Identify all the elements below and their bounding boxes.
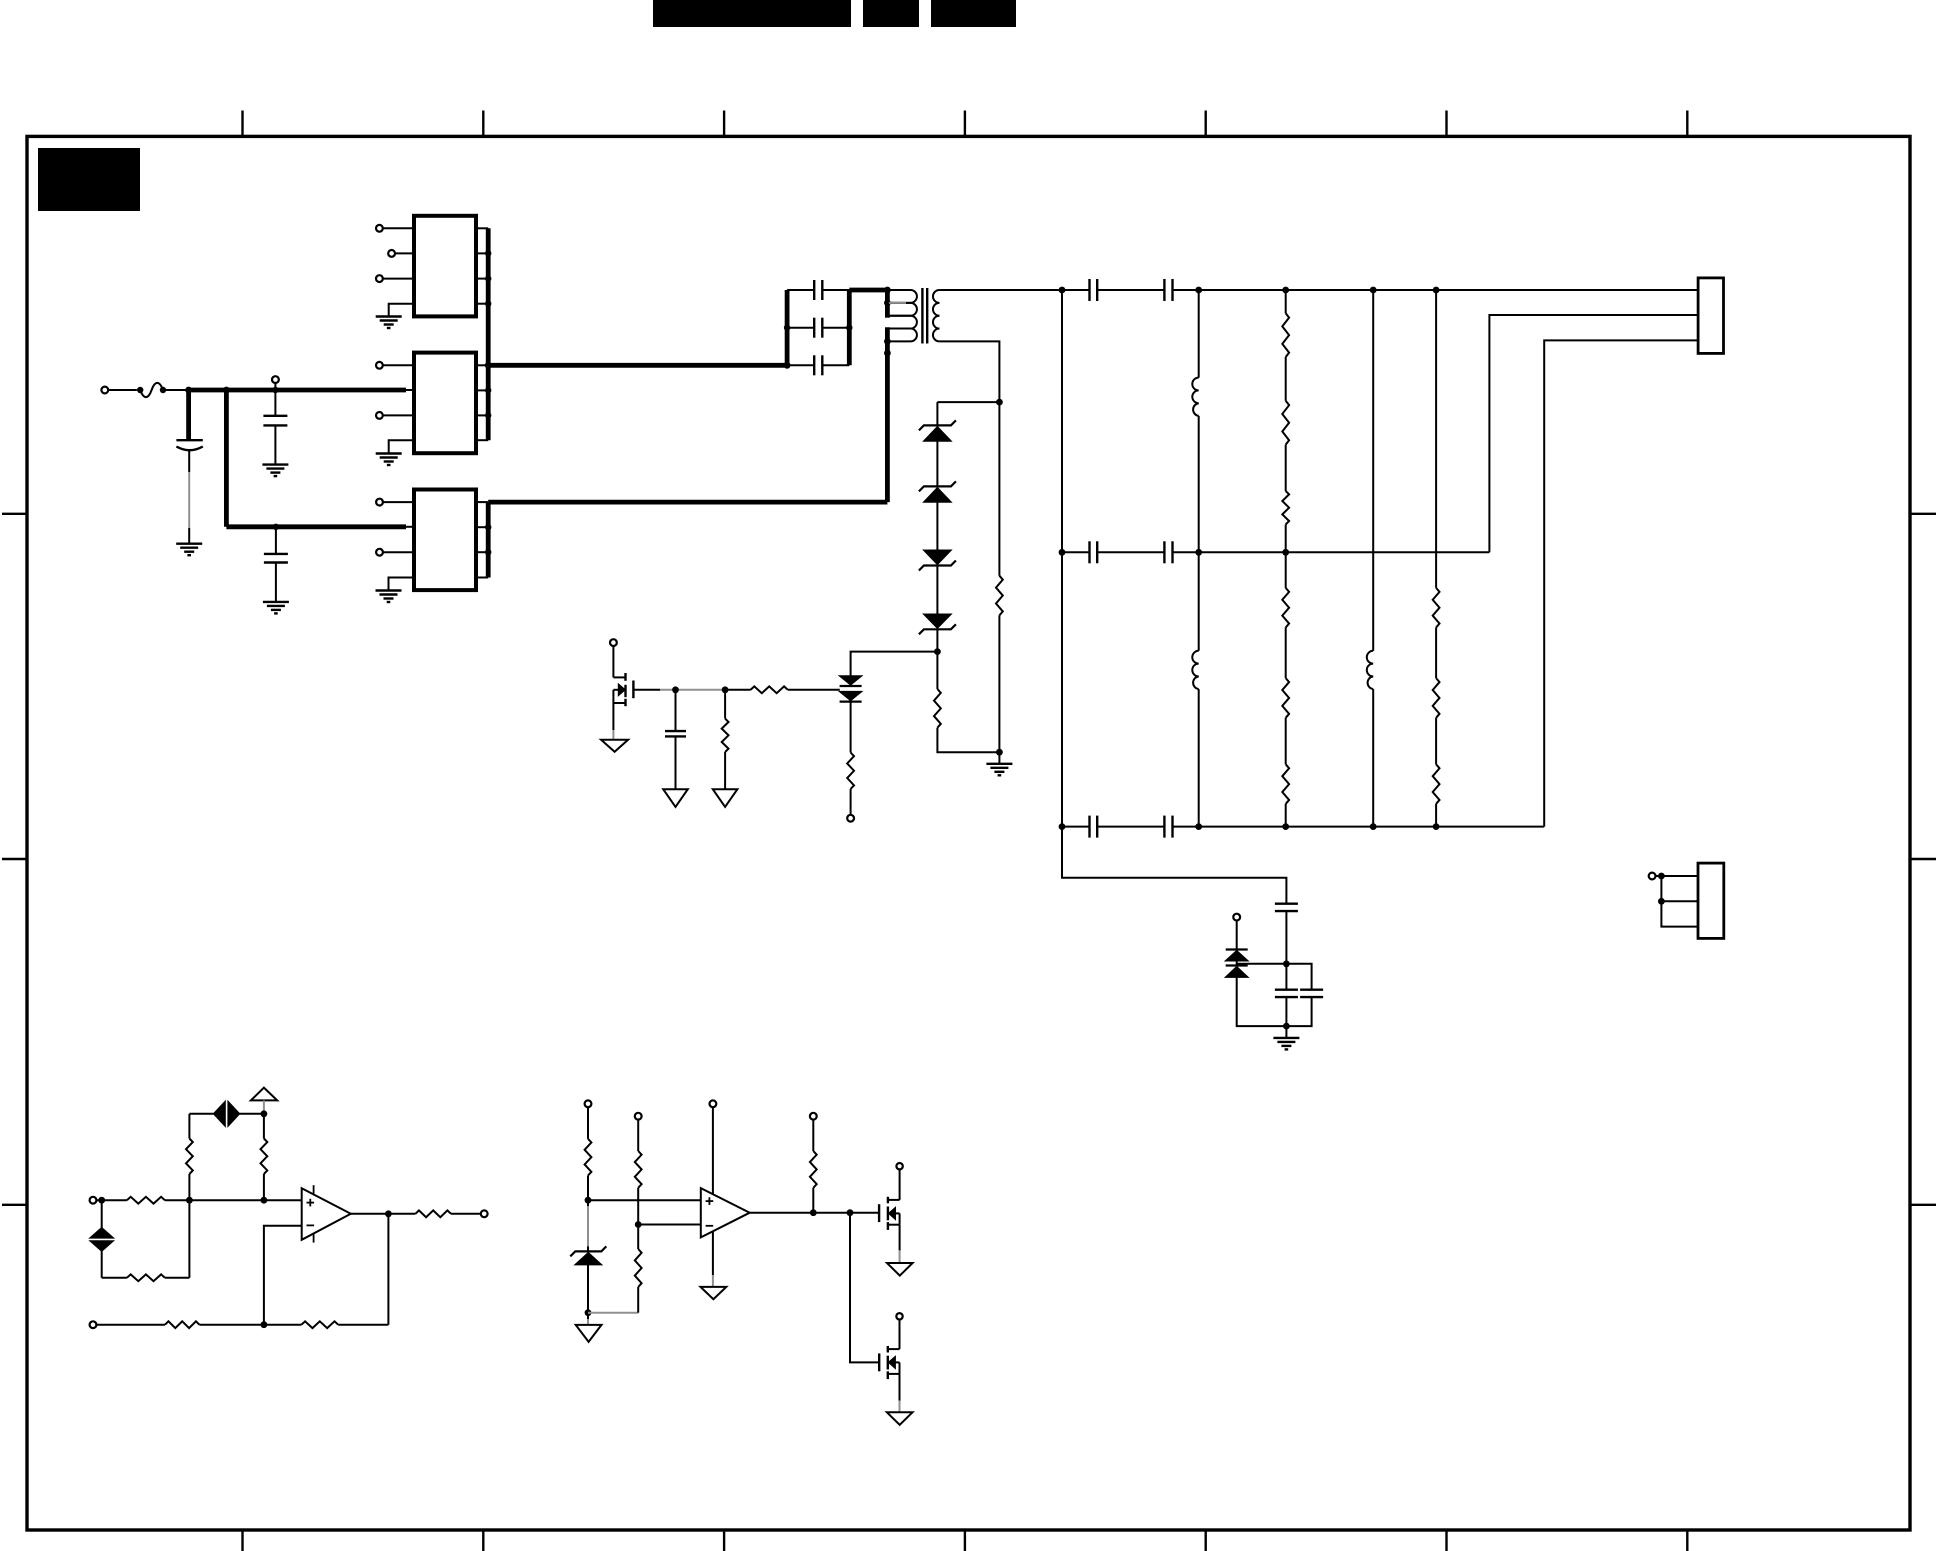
node [784, 325, 853, 369]
wire [787, 364, 814, 366]
wire [1285, 911, 1287, 964]
wire [1173, 551, 1490, 553]
node E [996, 399, 1003, 406]
diode D5 (opto LED) [840, 676, 862, 686]
wire [383, 551, 414, 553]
terminal [896, 1163, 902, 1169]
node [1059, 287, 1440, 294]
wire [899, 1225, 901, 1263]
wire [937, 402, 999, 425]
wire [1173, 289, 1699, 291]
wire [274, 383, 276, 390]
wire [637, 1188, 639, 1225]
diode D2 (zener) [919, 481, 956, 502]
resistor R6 [1282, 290, 1289, 357]
wire [188, 449, 190, 544]
wire [850, 789, 852, 815]
wire [1237, 977, 1287, 1026]
wire [936, 441, 938, 486]
resistor R11 [1282, 718, 1289, 827]
wire (primary spine) [885, 290, 890, 502]
wire [612, 646, 614, 678]
node B [223, 387, 230, 394]
wire [1661, 876, 1698, 927]
wire [264, 1226, 302, 1325]
wire [488, 363, 787, 368]
capacitor C5 [814, 318, 822, 338]
ground (chassis) [701, 1287, 727, 1299]
wire [936, 629, 938, 651]
wire [96, 1324, 165, 1326]
wire [163, 389, 189, 391]
ground (chassis) [887, 1263, 913, 1276]
node [1658, 873, 1665, 905]
ground (chassis) [663, 789, 688, 807]
wire [587, 1313, 589, 1325]
resistor R16 [261, 1114, 268, 1200]
diode D7 [1226, 950, 1248, 961]
wire [1544, 340, 1698, 826]
input terminal [101, 387, 108, 394]
node K [1283, 960, 1290, 967]
node G [996, 749, 1003, 756]
wire [389, 440, 414, 453]
ground [986, 764, 1012, 776]
wire [588, 1199, 701, 1201]
wire [395, 252, 414, 254]
terminal [585, 1100, 592, 1107]
wire [850, 702, 852, 753]
wire [1285, 1026, 1287, 1038]
terminal [847, 815, 854, 822]
wire [1173, 826, 1545, 828]
node [485, 250, 492, 418]
resistor R20 [264, 1321, 389, 1328]
terminal [376, 225, 383, 232]
op-amp U4 [302, 1185, 351, 1242]
module U1 [414, 216, 476, 317]
node C [272, 387, 278, 393]
capacitor C12 [1090, 816, 1098, 838]
capacitor C3 [264, 554, 288, 563]
node (primary pins) [884, 287, 891, 357]
wire [712, 1107, 714, 1194]
wire [188, 1200, 190, 1278]
node S [385, 1210, 392, 1217]
node A (rectified AC bus) [185, 387, 192, 394]
wire [274, 390, 276, 416]
terminal [388, 250, 395, 257]
inductor L3 [1367, 290, 1373, 827]
transistor Q2 [879, 1197, 900, 1230]
wire [587, 1176, 589, 1201]
ground (chassis) [576, 1325, 602, 1342]
power VCC [251, 1088, 277, 1111]
wire [750, 1212, 879, 1214]
wire [587, 1200, 589, 1251]
wire [275, 563, 277, 602]
wire [936, 566, 938, 615]
resistor R10 [1282, 628, 1289, 718]
transistor Q1 [613, 673, 633, 706]
wire [1656, 875, 1662, 877]
ground [376, 591, 402, 603]
node [1059, 549, 1290, 556]
wire [1236, 921, 1238, 950]
diode D4 [919, 614, 956, 634]
resistor R17 [127, 1197, 165, 1204]
diode D8 [1226, 966, 1248, 978]
capacitor C9 [1164, 279, 1172, 301]
connector CN2 [1698, 863, 1724, 938]
resistor R7 [1282, 357, 1289, 445]
wire [387, 1214, 389, 1325]
wire [1489, 315, 1698, 552]
fuse F1 [137, 383, 166, 397]
wire [822, 364, 849, 366]
wire [264, 1199, 302, 1201]
node Z [847, 1209, 854, 1216]
wire [1097, 551, 1164, 553]
module U2 [414, 353, 476, 454]
resistor R24 [635, 1225, 642, 1313]
wire (cap bank left rail) [785, 290, 790, 365]
transistor Q3 [879, 1346, 899, 1379]
wire [638, 1224, 701, 1226]
wire [389, 578, 415, 591]
wire (secondary top lead) [939, 289, 1062, 291]
node N [261, 1110, 268, 1117]
wire (U1-U2 output bus) [486, 228, 491, 440]
wire [899, 1320, 901, 1350]
capacitor C8 [1090, 279, 1098, 301]
connector CN1 [1698, 278, 1723, 354]
wire [226, 390, 414, 527]
wire [587, 1107, 589, 1139]
op-amp U5 [701, 1188, 750, 1237]
terminal [896, 1313, 902, 1319]
wire [936, 652, 938, 689]
wire [937, 728, 999, 753]
inductor L1 [1192, 290, 1198, 552]
transformer T1 primary winding [889, 290, 917, 341]
node [1059, 823, 1440, 830]
inductor L2 [1192, 552, 1198, 826]
wire (output row 1) [939, 289, 1089, 291]
capacitor C7 [665, 731, 686, 736]
wire [1097, 289, 1164, 291]
resistor R15 [186, 1114, 193, 1200]
wire [189, 388, 414, 393]
resistor R21 [165, 1321, 199, 1328]
ground [263, 602, 289, 614]
transformer T1 secondary winding [933, 290, 939, 341]
wire [108, 389, 137, 391]
resistor R12 [1433, 290, 1440, 628]
resistor R13 [1433, 628, 1440, 718]
wire [787, 327, 814, 329]
wire (output row 3) [1062, 826, 1090, 828]
wire (secondary bottom lead) [939, 341, 999, 402]
node X [635, 1221, 642, 1228]
capacitor C1 [176, 440, 202, 450]
capacitor C13 [1164, 816, 1172, 838]
terminal [810, 1113, 817, 1120]
resistor R14 [1433, 718, 1440, 827]
ground [376, 317, 402, 329]
node F [934, 648, 941, 655]
wire [724, 752, 726, 789]
ground [176, 544, 202, 556]
capacitor C14 [1275, 904, 1298, 911]
wire [675, 690, 677, 731]
wire [851, 652, 938, 676]
wire [899, 1169, 901, 1200]
resistor R1 [996, 402, 1003, 752]
resistor R8 [1282, 445, 1289, 553]
ground [376, 454, 402, 466]
terminal [710, 1100, 717, 1107]
terminal [90, 1321, 97, 1328]
wire [383, 501, 414, 503]
wire [849, 288, 887, 293]
ground (chassis) [601, 740, 628, 752]
wire [1236, 961, 1238, 966]
diode D11 (TVS) [87, 1200, 116, 1278]
wire [850, 1213, 879, 1363]
wire [998, 752, 1000, 764]
wire [1062, 827, 1286, 904]
transformer T1 core [922, 288, 927, 344]
wire [351, 1213, 389, 1215]
diode D6 (opto LED) [840, 692, 862, 702]
wire (U3 output bus) [486, 502, 491, 577]
diode D3 [919, 550, 956, 570]
wire [189, 1113, 213, 1115]
terminal [376, 412, 383, 419]
wire (primary tap) [889, 302, 906, 304]
wire [383, 414, 414, 416]
terminal [376, 362, 383, 369]
wire [1237, 963, 1287, 965]
wire [1097, 826, 1164, 828]
resistor R19 [388, 1210, 480, 1217]
wire [389, 304, 414, 317]
capacitor C16 [1286, 964, 1323, 1026]
node T [261, 1321, 268, 1328]
terminal [1233, 914, 1240, 921]
module U3 [414, 490, 476, 591]
wire [899, 1374, 901, 1412]
capacitor C4 [814, 280, 822, 300]
terminal [610, 639, 617, 646]
wire [787, 289, 814, 291]
wire [637, 1120, 639, 1151]
resistor R25 [810, 1120, 817, 1213]
wire [239, 1113, 264, 1115]
wire [612, 703, 614, 740]
ground [262, 465, 288, 477]
terminal [272, 376, 279, 383]
capacitor C10 [1090, 541, 1098, 563]
wire [1061, 290, 1063, 827]
diode D1 (zener) [919, 420, 956, 441]
node D [273, 524, 279, 530]
diode D10 (TVS) [214, 1099, 240, 1130]
capacitor C2 [263, 416, 287, 426]
wire [189, 1199, 264, 1201]
capacitor C15 [1275, 964, 1298, 1026]
wire (output row 2) [1062, 551, 1090, 553]
ground [1273, 1038, 1299, 1050]
resistor R3 [722, 719, 729, 752]
node H [672, 686, 679, 693]
node I [722, 686, 729, 693]
node [485, 524, 491, 555]
wire [96, 1199, 127, 1201]
resistor R5 [847, 753, 854, 790]
node Y [810, 1209, 817, 1216]
resistor R9 [1282, 552, 1289, 627]
resistor R2 [934, 689, 941, 728]
node P [98, 1197, 105, 1204]
wire [675, 736, 677, 789]
wire [724, 690, 726, 719]
wire [383, 227, 414, 229]
resistor R23 [635, 1151, 642, 1188]
wire [476, 502, 488, 577]
wire [383, 364, 414, 366]
wire [822, 327, 849, 329]
node Q [186, 1197, 193, 1204]
terminal [1649, 873, 1656, 880]
wire [712, 1231, 714, 1287]
resistor R4 [725, 686, 840, 693]
terminal [376, 549, 383, 556]
wire [275, 527, 277, 554]
wire [383, 278, 414, 280]
resistor R22 [585, 1139, 592, 1176]
wire [633, 689, 725, 691]
terminal [90, 1197, 97, 1204]
wire [822, 289, 849, 291]
terminal [481, 1210, 488, 1217]
ground (chassis) [887, 1412, 913, 1425]
capacitor C6 [814, 355, 822, 375]
wire [488, 500, 887, 505]
diode D9 (zener) [570, 1246, 606, 1264]
wire (cap bank right rail) [847, 290, 852, 365]
node R [261, 1197, 268, 1204]
terminal [376, 275, 383, 282]
wire [476, 365, 488, 440]
terminal [635, 1113, 642, 1120]
wire [199, 1324, 264, 1326]
wire [274, 425, 276, 464]
wire [936, 502, 938, 550]
wire [186, 390, 191, 440]
wire [165, 1199, 190, 1201]
resistor R18 [102, 1274, 190, 1281]
ground (chassis) [713, 789, 738, 807]
terminal [376, 499, 383, 506]
wire [588, 1312, 638, 1314]
node V [585, 1197, 592, 1204]
node M [1283, 1023, 1290, 1030]
node W [585, 1309, 592, 1316]
wire [587, 1265, 589, 1313]
wire [476, 228, 488, 303]
capacitor C11 [1164, 541, 1172, 563]
